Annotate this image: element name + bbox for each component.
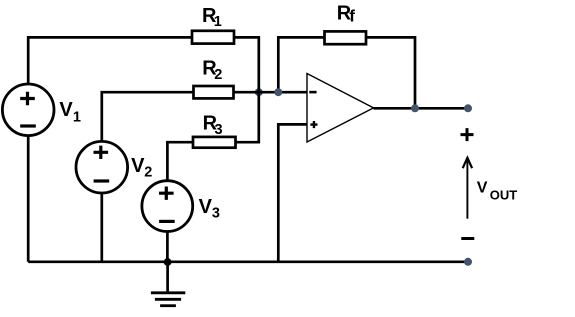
wire R3 right up to junction bbox=[236, 92, 259, 142]
ground bbox=[151, 262, 185, 306]
wire op-amp output to terminal bbox=[374, 107, 469, 110]
voltage source V2 bbox=[76, 141, 152, 193]
svg-text:V: V bbox=[131, 155, 145, 177]
node C (feedback joins output) bbox=[411, 104, 419, 112]
svg-text:1: 1 bbox=[214, 14, 222, 30]
resistor R2 bbox=[194, 57, 234, 98]
resistor R1 bbox=[192, 5, 234, 44]
voltage source V3 bbox=[142, 181, 220, 232]
Vout arrow bbox=[463, 158, 472, 219]
node D (output terminal) bbox=[464, 104, 472, 112]
voltage source V1 bbox=[2, 84, 81, 136]
svg-text:V: V bbox=[477, 180, 488, 197]
label Vout bbox=[477, 180, 518, 203]
output plus terminal label bbox=[461, 128, 474, 141]
wire V3 top to R3 bbox=[167, 142, 193, 181]
svg-text:3: 3 bbox=[215, 122, 223, 138]
wire junction up to Rf left bbox=[278, 37, 324, 92]
wire R2 right to op-amp inverting input bbox=[234, 91, 308, 94]
wire V1 top to R1 bbox=[28, 37, 192, 84]
wire V3 bottom to rail bbox=[166, 232, 169, 262]
node E (bottom terminal) bbox=[464, 258, 472, 266]
svg-text:V: V bbox=[59, 99, 73, 121]
svg-text:2: 2 bbox=[214, 67, 222, 83]
svg-text:2: 2 bbox=[144, 164, 152, 180]
svg-text:1: 1 bbox=[73, 110, 81, 126]
wire V2 bottom to rail bbox=[100, 193, 103, 262]
svg-text:f: f bbox=[349, 7, 355, 26]
wire op-amp noninverting input down to ground rail bbox=[278, 124, 307, 261]
node A (inverting input junction, under wires) bbox=[255, 88, 263, 96]
output minus terminal label bbox=[461, 237, 474, 240]
wire V1 bottom to rail bbox=[27, 136, 30, 262]
node B (Rf tap on inverting input) bbox=[274, 88, 282, 96]
resistor Rf (feedback) bbox=[325, 3, 367, 45]
resistor R3 bbox=[193, 113, 236, 148]
svg-text:OUT: OUT bbox=[490, 187, 518, 202]
wire V2 top to R2 bbox=[102, 92, 194, 141]
svg-text:3: 3 bbox=[212, 205, 220, 221]
wire Rf right down to output bbox=[366, 37, 415, 108]
wire bottom rail bbox=[28, 260, 468, 263]
op-amp U1 bbox=[307, 74, 374, 143]
wire R1 right to junction bbox=[234, 37, 259, 92]
node F (ground junction) bbox=[164, 258, 172, 266]
svg-text:V: V bbox=[199, 196, 213, 218]
